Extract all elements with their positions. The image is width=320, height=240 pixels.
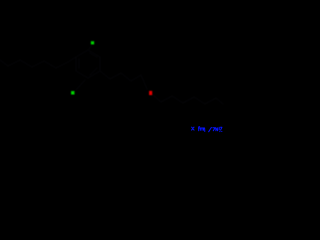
atom label O bbox=[149, 91, 152, 95]
atom label Cl2 bbox=[71, 91, 75, 94]
watermark word2 bbox=[213, 127, 222, 131]
wire bond to Cl2 bbox=[76, 80, 85, 90]
watermark slash bbox=[209, 127, 212, 131]
wire left alkyl chain bbox=[0, 57, 76, 68]
node benzene ring bbox=[76, 50, 100, 78]
watermark word1 bbox=[198, 127, 204, 132]
wire ring inner double bonds bbox=[79, 53, 97, 75]
atom label Cl1 bbox=[91, 41, 94, 44]
wire right chain to O bbox=[100, 71, 147, 89]
wire chain after O bbox=[153, 95, 223, 104]
wire bond to Cl1 bbox=[89, 46, 92, 50]
watermark X bbox=[192, 127, 194, 130]
